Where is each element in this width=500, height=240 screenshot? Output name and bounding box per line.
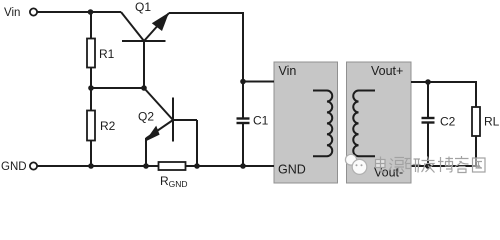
wire top rail Q1 emitter to C1 (169, 12, 244, 14)
node junction Q1 base (141, 85, 147, 91)
watermark wechat icon (345, 154, 366, 174)
svg-text:RGND: RGND (160, 174, 188, 189)
wire Vout- rail (411, 165, 477, 167)
wire to transformer Vin port (243, 81, 274, 83)
wire bottom rail GND (37, 165, 275, 167)
resistor RL (472, 107, 480, 136)
node junction R1/R2/base (88, 85, 94, 91)
svg-text:Q2: Q2 (138, 110, 154, 124)
node junction R2/GND rail (88, 163, 94, 169)
resistor R_GND (159, 162, 186, 170)
svg-text:Vout+: Vout+ (371, 64, 403, 78)
svg-text:RL: RL (484, 115, 500, 129)
char 电 (376, 157, 386, 173)
transistor Q1 (121, 12, 169, 88)
char 客 (455, 156, 469, 173)
inductor secondary winding (353, 91, 375, 157)
node junction C1/Vin port (240, 79, 246, 85)
transformer block secondary (gray box) (347, 62, 412, 183)
wire R2 bottom lead (90, 141, 92, 167)
capacitor C1 (237, 13, 250, 166)
svg-text:Vin: Vin (4, 7, 20, 19)
transistor Q2 (144, 88, 197, 142)
wire Q2 base lead down (196, 120, 198, 166)
char 发 (422, 157, 435, 173)
resistor R2 (87, 111, 95, 141)
node junction C2 bottom (425, 163, 431, 169)
wire R1 top lead (90, 12, 92, 39)
wire R1 bottom lead (90, 68, 92, 89)
wire RL top lead (475, 81, 477, 107)
svg-text:R2: R2 (100, 119, 116, 133)
terminal Vin circle (30, 8, 37, 15)
node junction C1/rail (240, 163, 246, 169)
wire base link horizontal (91, 87, 144, 89)
capacitor C2 (422, 82, 435, 166)
wire Vout+ rail (411, 81, 476, 83)
inductor primary winding (313, 91, 332, 157)
node junction C2 top (425, 79, 431, 85)
node junction Vin/R1 (88, 9, 94, 15)
wire R2 top lead (90, 88, 92, 111)
node junction Q2 base/rail (194, 163, 200, 169)
char 源 (389, 158, 404, 173)
svg-text:Vin: Vin (279, 64, 297, 78)
char 园 (473, 158, 486, 172)
watermark text 电源研发博客园 (approximated glyphs) (376, 156, 486, 173)
svg-text:C2: C2 (440, 115, 456, 129)
transformer block primary (gray box) (274, 62, 338, 183)
wire RL bottom lead (475, 136, 477, 167)
svg-text:Q1: Q1 (135, 0, 151, 14)
resistor R1 (87, 39, 95, 68)
terminal GND circle (30, 162, 37, 169)
svg-text:C1: C1 (253, 114, 269, 128)
wire top rail Vin to Q1 collector (37, 11, 122, 13)
char 研 (405, 159, 421, 173)
svg-text:GND: GND (278, 163, 306, 177)
wire Q2 emitter lead down (145, 138, 147, 166)
svg-text:R1: R1 (99, 47, 115, 61)
node junction Q2 emitter/rail (143, 163, 149, 169)
svg-text:GND: GND (1, 161, 27, 173)
char 博 (438, 157, 453, 173)
